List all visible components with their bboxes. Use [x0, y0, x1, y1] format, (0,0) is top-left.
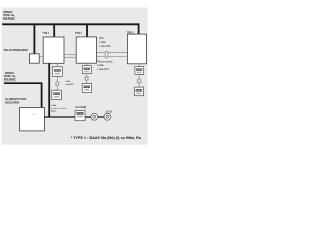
wire: sounder1 to sounder2 under TYPE3 — [138, 74, 140, 87]
sounder block under TYPE3 (2) — [134, 87, 143, 96]
cable pair symbol (ellipse) on TYPE2-TYPE3 wires — [105, 51, 108, 58]
svg-text:TELECOMMANDE: TELECOMMANDE — [4, 48, 28, 52]
block telecommande junction box — [30, 54, 40, 63]
wire: down to alimentation box — [41, 83, 43, 107]
wire: TYPE3 to sounder 1 — [138, 64, 140, 67]
D.A.S actuator circle 1 — [91, 113, 98, 120]
underline under 2x1.5mm² — [3, 19, 15, 21]
svg-text:D.A.S: D.A.S — [106, 110, 113, 113]
label cable DAS — [51, 105, 67, 113]
svg-text:SECOURUE: SECOURUE — [5, 100, 20, 104]
wire: TYPE1-TYPE2 pair bottom — [64, 56, 76, 58]
label ALIMENTATION SECOURUE — [5, 97, 26, 104]
svg-text:1 câble: 1 câble — [99, 41, 106, 44]
wire: TYPE1 thick drop to DAS line — [48, 63, 50, 117]
block D.A.S.(M) — [75, 111, 85, 121]
label telecommande cable — [97, 60, 114, 70]
wire: DAS feed horizontal — [44, 116, 106, 118]
wire: sounder1 to sounder2 under TYPE1 — [56, 76, 58, 90]
label BUS cable — [99, 37, 111, 48]
svg-text:1 câble: 1 câble — [97, 64, 104, 67]
svg-text:1 paire 8/10ᵉ: 1 paire 8/10ᵉ — [97, 68, 110, 71]
wire: drop to TYPE 1 — [53, 24, 55, 37]
sounder block under TYPE2 (1) — [82, 66, 91, 74]
sounder block under TYPE1 (1) — [52, 67, 62, 77]
wire: drop to telecommande box — [33, 24, 35, 53]
cable pair symbol on TYPE3 column — [136, 79, 141, 84]
cable pair symbol on TYPE2 column — [84, 76, 89, 81]
wire: TYPE2-TYPE3 pair bottom — [96, 56, 127, 58]
page background — [0, 0, 150, 150]
wire: drop to TYPE 2 — [86, 24, 88, 37]
figure gray background — [2, 7, 148, 144]
sounder block under TYPE3 (1) — [135, 67, 144, 75]
wire: sounder1 to sounder2 under TYPE2 — [86, 74, 88, 84]
wire: telecommande box to TYPE 1 — [39, 55, 43, 57]
label 230VAC mains (top-left) — [3, 10, 15, 20]
sounder block under TYPE2 (2) — [82, 83, 91, 92]
wire: TYPE2 to sounder 1 — [86, 63, 88, 65]
label 230VAC secours (left-bottom) — [4, 71, 16, 81]
svg-text:2x1.5mm²: 2x1.5mm² — [4, 77, 16, 81]
svg-text:TYPE 2: TYPE 2 — [75, 31, 82, 35]
svg-text:1 paire 8/10ᵉ: 1 paire 8/10ᵉ — [65, 83, 74, 86]
D.A.S actuator circle 2 — [104, 113, 111, 120]
svg-text:2x1.5mm²: 2x1.5mm² — [3, 16, 15, 20]
svg-text:D.A.S.(M): D.A.S.(M) — [76, 106, 87, 109]
wire: drop to TYPE 3 (bus end) — [138, 24, 140, 35]
svg-text:1 câble: 1 câble — [65, 81, 71, 83]
block TYPE 3 — [127, 34, 146, 64]
cable pair symbol on TYPE1 column — [55, 81, 60, 86]
wire: TYPE2-TYPE3 pair top — [96, 51, 127, 53]
svg-text:Type C2: Type C2 — [51, 111, 57, 113]
svg-text:* TYPE 1 : BAAS Ma (Me) (f) ou: * TYPE 1 : BAAS Ma (Me) (f) ou BMa, Ra — [71, 136, 141, 140]
wire: TYPE1 to sounder 1 — [56, 63, 58, 67]
block alimentation secourue — [20, 108, 45, 131]
svg-text:1 paire 8/10ᵉ: 1 paire 8/10ᵉ — [99, 45, 111, 48]
block TYPE 2 — [76, 37, 96, 63]
wire: TYPE1-TYPE2 pair top — [64, 54, 76, 56]
svg-text:TYPE 1: TYPE 1 — [42, 31, 49, 35]
svg-text:1 paire 1,5mm²: 1 paire 1,5mm² — [51, 107, 67, 110]
sounder block under TYPE1 (2) — [52, 90, 62, 99]
wire: 230VAC main bus horizontal — [2, 23, 139, 25]
svg-text:Télécommande :: Télécommande : — [97, 60, 114, 63]
underline under 2x1.5mm² (bottom block) — [4, 80, 16, 82]
wire: 230VAC to alimentation horizontal — [4, 82, 42, 84]
label cable TYPE1 column — [65, 81, 74, 86]
svg-text:BUS:: BUS: — [99, 37, 104, 40]
block TYPE 1 (BAAS) — [43, 37, 64, 63]
svg-text:1 câble: 1 câble — [51, 105, 57, 107]
